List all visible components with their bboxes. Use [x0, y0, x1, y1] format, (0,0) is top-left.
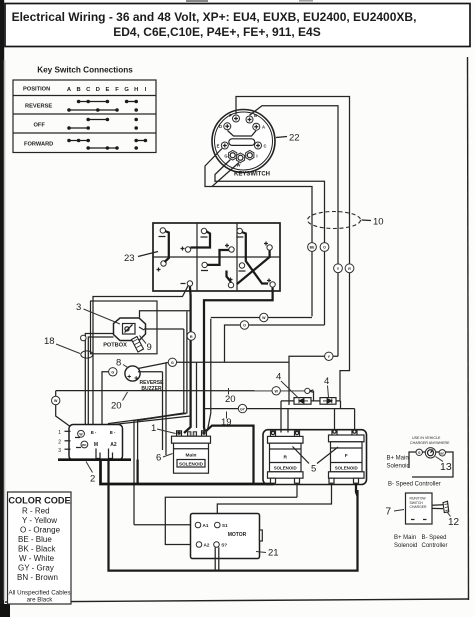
wire aux pair to main solenoid [208, 409, 211, 430]
keyswitch pin B [246, 113, 257, 123]
label 4 left [276, 372, 298, 398]
wire A1 feed [134, 524, 195, 526]
svg-text:S?: S? [221, 543, 227, 548]
svg-text:6: 6 [156, 453, 161, 464]
wire tag W mid [260, 313, 268, 321]
key switch connection table [13, 66, 156, 153]
svg-text:8: 8 [116, 358, 121, 369]
label 4 right [324, 376, 329, 398]
reverse buzzer 8 [125, 366, 140, 381]
potbox lever arm [132, 337, 144, 353]
svg-text:SOLENOID: SOLENOID [274, 466, 297, 471]
wire tag W right on 20 run [272, 387, 280, 395]
svg-text:I: I [256, 154, 257, 159]
svg-text:1: 1 [58, 430, 61, 436]
wire battery aux to W run [210, 319, 212, 409]
page border right [468, 57, 469, 600]
wire potbox top jumper to battery cable [140, 311, 191, 318]
wire R solenoid left stud down to thick bus [272, 482, 274, 485]
svg-text:3: 3 [58, 448, 61, 454]
svg-text:R - Red: R - Red [22, 507, 50, 516]
svg-text:D: D [96, 87, 100, 93]
label 7 [386, 507, 405, 518]
battery B6 terminals [239, 263, 276, 287]
svg-text:KEYSWITCH: KEYSWITCH [234, 172, 270, 178]
wire keyswitch B up-over-right (inner) [250, 106, 339, 356]
potbox 3 [114, 318, 146, 341]
keyswitch pin H wire [212, 163, 239, 187]
svg-text:5: 5 [311, 464, 316, 475]
scan edge band left [0, 0, 10, 617]
scan smudges top [186, 0, 208, 2]
svg-text:COLOR CODE: COLOR CODE [8, 496, 70, 506]
svg-text:20: 20 [225, 394, 236, 405]
svg-text:B+ Main: B+ Main [387, 456, 409, 462]
keyswitch 22 [212, 110, 275, 173]
svg-text:B -: B - [91, 430, 97, 435]
battery minus cable down to main solenoid [184, 287, 191, 433]
svg-text:4: 4 [276, 372, 281, 383]
svg-text:USE IN VEHICLE: USE IN VEHICLE [412, 436, 441, 440]
svg-text:SOLENOID: SOLENOID [335, 466, 358, 471]
svg-text:O: O [243, 324, 246, 328]
wire keyswitch G to O run [215, 160, 325, 326]
controller M prong [96, 449, 100, 459]
svg-text:Key Switch Connections: Key Switch Connections [37, 66, 133, 75]
battery series link cross X a [237, 251, 270, 285]
svg-text:G: G [224, 154, 227, 159]
svg-text:1: 1 [151, 423, 156, 434]
svg-text:7: 7 [386, 507, 392, 518]
plug 12 [432, 501, 449, 512]
svg-text:B- Speed: B- Speed [422, 535, 447, 541]
label 20 left [111, 392, 128, 412]
svg-text:R: R [283, 455, 287, 461]
wire Y run horizontal [289, 356, 338, 400]
svg-text:G: G [171, 361, 174, 365]
battery series link B2-B1 [191, 232, 211, 248]
svg-text:9: 9 [147, 342, 152, 353]
battery minus branch to controller B- [93, 286, 188, 425]
table row FORWARD r2 contacts [86, 146, 138, 150]
keyswitch pin G [224, 150, 236, 160]
wire W run horizontal [211, 317, 312, 319]
wire tag R [345, 264, 354, 273]
svg-text:21: 21 [268, 548, 279, 559]
wire O run horizontal [225, 325, 325, 362]
svg-text:C: C [263, 143, 266, 148]
label 22 [276, 133, 300, 144]
keyswitch pin E [217, 142, 229, 149]
svg-text:G: G [111, 371, 114, 375]
svg-text:A1: A1 [203, 523, 209, 528]
wire harness diagonals into controller [109, 414, 187, 459]
svg-text:BN - Brown: BN - Brown [17, 573, 58, 582]
svg-text:SOLENOID: SOLENOID [179, 461, 204, 466]
svg-text:3: 3 [76, 302, 81, 313]
wire S1 run to F solenoid [217, 483, 331, 522]
svg-text:BE: BE [310, 246, 315, 250]
wire tag Y on run [325, 352, 333, 360]
title box [5, 4, 470, 47]
label 8 [116, 358, 129, 369]
label 3 [76, 302, 120, 324]
svg-text:GY - Gray: GY - Gray [18, 564, 54, 573]
keyswitch pin I [246, 150, 258, 160]
svg-text:GY: GY [240, 407, 246, 411]
svg-text:OFF: OFF [34, 123, 46, 129]
svg-text:4: 4 [324, 376, 329, 387]
svg-text:O - Orange: O - Orange [20, 526, 61, 535]
svg-text:REVERSE: REVERSE [25, 104, 52, 110]
label 9 [140, 336, 152, 354]
table contact letters [67, 87, 147, 93]
table row OFF r1 contacts [86, 118, 138, 122]
svg-text:Controller: Controller [422, 543, 448, 549]
wire 20 end connector [305, 388, 314, 401]
battery B2 terminals [201, 228, 235, 252]
cable clamp loop on 18 wires [81, 351, 93, 358]
motor 21 [191, 514, 263, 559]
label 21 [256, 548, 279, 559]
svg-text:BE: BE [440, 451, 444, 455]
wire tag R on minus cable [187, 332, 195, 340]
label 20 right [225, 388, 236, 405]
harness oval 10 [308, 212, 384, 229]
label 6 [156, 453, 173, 464]
svg-text:22: 22 [289, 133, 300, 144]
battery B3 terminals [236, 228, 272, 250]
table row FORWARD r1 contacts [67, 139, 147, 143]
caption under 7 [394, 535, 448, 549]
wire 19 GY run [204, 408, 355, 410]
thick drop at A2 prong pair [136, 460, 138, 485]
svg-text:E: E [105, 87, 109, 93]
wire tag Y [334, 264, 343, 273]
wire F solenoid right stud down joining bottom loop [356, 483, 358, 496]
R solenoid [268, 431, 304, 483]
svg-text:18: 18 [44, 336, 55, 347]
battery series link B3 down [242, 232, 246, 252]
battery B1 terminals [159, 228, 191, 253]
svg-text:G: G [124, 87, 129, 93]
label 12 [448, 513, 460, 529]
svg-text:CHARGER: CHARGER [410, 505, 428, 509]
wire buzzer to controller [102, 372, 109, 425]
svg-text:MOTOR: MOTOR [228, 532, 247, 538]
svg-text:10: 10 [373, 217, 384, 228]
wire W drop to controller [56, 405, 70, 426]
svg-text:D: D [219, 124, 222, 129]
thick cable main solenoid to R/F enclosure [206, 426, 254, 484]
keyswitch key-slot bar E-C [229, 139, 255, 146]
battery series link cross X b [246, 252, 268, 284]
svg-text:F: F [345, 453, 348, 459]
svg-text:E: E [217, 143, 220, 148]
ground bus under controller [58, 458, 131, 461]
svg-text:Y - Yellow: Y - Yellow [22, 516, 57, 525]
potbox left terminal ring [81, 335, 87, 341]
keyswitch pin F [229, 113, 239, 122]
keyswitch pin H [236, 153, 244, 168]
wire tag GY on 19 run [238, 404, 246, 412]
wire keyswitch E to BE run [205, 149, 312, 317]
wire tag G at buzzer [109, 368, 117, 376]
svg-text:F: F [115, 87, 119, 93]
wire buzzer up to G run [138, 363, 168, 369]
svg-text:W - White: W - White [19, 554, 55, 563]
svg-text:BK - Black: BK - Black [18, 545, 56, 554]
battery B5 terminals [201, 262, 234, 288]
wire tag BE [308, 243, 317, 252]
svg-text:2: 2 [58, 440, 61, 446]
svg-text:A: A [262, 125, 265, 130]
svg-text:A2: A2 [110, 442, 117, 448]
svg-text:B+ Main: B+ Main [394, 535, 416, 541]
svg-text:Main: Main [186, 453, 197, 459]
svg-text:B: B [77, 87, 81, 93]
battery series link B1-B4 [165, 231, 169, 262]
svg-text:12: 12 [448, 517, 460, 528]
svg-text:BE - Blue: BE - Blue [18, 535, 52, 544]
keyswitch pin C [255, 142, 267, 149]
wire keyswitch F up-over-right (outer) [236, 97, 350, 398]
svg-text:B -: B - [110, 430, 116, 435]
svg-text:BK: BK [82, 443, 87, 447]
table row OFF r2 contacts [67, 126, 138, 130]
svg-text:20: 20 [111, 401, 122, 412]
svg-text:W: W [274, 390, 278, 394]
svg-text:A2: A2 [204, 543, 210, 548]
label 18 [44, 336, 80, 354]
table row REVERSE r1 contacts [77, 100, 138, 104]
svg-text:R: R [190, 335, 193, 339]
wire potbox pair to left (18) [85, 334, 113, 425]
battery series link B5-B2 [207, 250, 229, 265]
svg-text:S1: S1 [222, 523, 228, 528]
svg-text:R: R [348, 267, 351, 271]
wire tag O [320, 243, 329, 252]
wire tag G on run [168, 358, 176, 366]
speed controller 2 [58, 425, 122, 461]
svg-text:B- Speed Controller: B- Speed Controller [388, 482, 441, 488]
keyswitch key-slot bar D-A [228, 131, 257, 137]
wire G run horizontal [168, 361, 289, 363]
svg-text:23: 23 [124, 253, 135, 264]
svg-text:M: M [94, 442, 98, 448]
svg-text:Electrical Wiring - 36 and 48: Electrical Wiring - 36 and 48 Volt, XP+:… [12, 10, 417, 24]
svg-text:H: H [134, 87, 138, 93]
controller A2 prong [109, 449, 113, 459]
potbox enclosure [91, 301, 158, 354]
svg-text:FORWARD: FORWARD [24, 142, 53, 148]
F solenoid [329, 430, 365, 483]
wire tag W left on 20 run [52, 391, 60, 405]
wire S2 pair down to bottom loop [215, 547, 219, 570]
label 5 with pointers [293, 447, 339, 475]
label 23 [124, 252, 158, 265]
wire 20 W run [56, 390, 305, 392]
wire A2 run motor [165, 497, 297, 544]
diode 4 right [320, 398, 336, 405]
tow switch 7 [406, 493, 433, 524]
label 19 [221, 412, 232, 429]
wire R solenoid right stud down to A2 run [296, 483, 298, 497]
svg-text:W: W [54, 399, 58, 403]
svg-text:O: O [323, 246, 326, 250]
svg-text:are Black: are Black [27, 597, 54, 604]
svg-text:POSITION: POSITION [23, 87, 50, 93]
keyswitch pin D [219, 123, 231, 130]
battery plus cable to main solenoid [204, 288, 273, 431]
main solenoid 6 [172, 431, 211, 473]
R+F solenoid rounded enclosure 5 [263, 430, 367, 485]
svg-text:ED4, C6E,C10E, P4E+, FE+, 911,: ED4, C6E,C10E, P4E+, FE+, 911, E4S [113, 25, 320, 39]
svg-text:CHARGER ANYWHERE: CHARGER ANYWHERE [410, 441, 450, 445]
keyswitch pin A [253, 123, 265, 130]
table row REVERSE r2 contacts [67, 108, 138, 112]
color code legend [8, 492, 72, 604]
wire between diodes and drops to R/F solenoids [281, 400, 340, 402]
svg-text:13: 13 [440, 461, 452, 473]
svg-text:2: 2 [90, 474, 95, 485]
diode 4 left [294, 398, 311, 405]
svg-text:POTBOX: POTBOX [103, 343, 127, 349]
label 13 [436, 457, 452, 474]
svg-text:Solenoid: Solenoid [394, 543, 417, 549]
label REVERSE BUZZER [140, 380, 165, 392]
wire tag O mid [240, 321, 248, 329]
label 2 [86, 462, 95, 485]
page border bottom [5, 599, 468, 602]
svg-text:F: F [229, 113, 232, 118]
svg-text:Solenoid: Solenoid [387, 464, 410, 470]
svg-text:W: W [262, 316, 266, 320]
bus corner down-right thick to R solenoid [101, 460, 274, 484]
battery main minus terminal [181, 281, 193, 286]
charger receptacle 13 [387, 436, 454, 488]
wire bundle battery area to controller diagonals [138, 312, 187, 485]
battery bank 23 outline [153, 223, 280, 291]
svg-text:B: B [254, 113, 257, 118]
battery series link B5 stub [227, 271, 232, 283]
svg-text:All Unspecified Cables: All Unspecified Cables [9, 590, 71, 597]
label 1 [151, 423, 176, 434]
bottom loop left leg [109, 460, 358, 571]
battery B4 terminals [157, 261, 167, 272]
